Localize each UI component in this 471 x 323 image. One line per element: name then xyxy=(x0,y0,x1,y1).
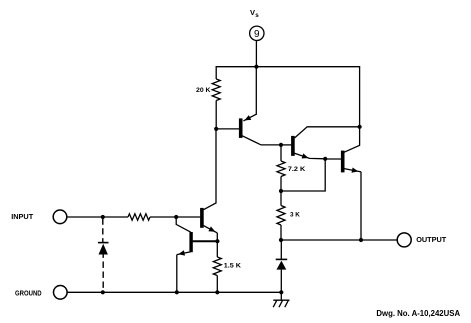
junction Q4 base / Q5 collector xyxy=(174,215,178,219)
wire to Q4 base xyxy=(150,216,200,218)
supply terminal (9 V) xyxy=(250,26,264,40)
terminal INPUT xyxy=(53,210,67,224)
resistor 7.2 K xyxy=(280,145,282,161)
svg-text:OUTPUT: OUTPUT xyxy=(416,235,446,244)
svg-text:7.2 K: 7.2 K xyxy=(288,166,306,173)
transistor Q4 (NPN) xyxy=(200,129,217,241)
junction Q2 collector node xyxy=(358,125,362,129)
wire top rail xyxy=(216,66,359,68)
ground (chassis) symbol xyxy=(273,292,289,307)
svg-text:3 K: 3 K xyxy=(290,212,300,219)
diode D2 xyxy=(276,240,288,292)
svg-text:9: 9 xyxy=(254,29,260,40)
junction ground/D2/chassis xyxy=(279,290,283,294)
resistor 3 K xyxy=(280,191,282,206)
wire ground rail xyxy=(67,291,281,293)
junction Q4 emitter / Q5 base / 1.5K xyxy=(215,239,219,243)
junction 20K / Q1 base / Q4 collector xyxy=(214,127,218,131)
svg-text:20 K: 20 K xyxy=(196,87,211,94)
svg-text:INPUT: INPUT xyxy=(11,212,33,221)
junction ground/Q5 emitter xyxy=(175,290,179,294)
wire rail to Q1 emitter xyxy=(255,67,257,115)
junction 3K / output / diode xyxy=(279,238,283,242)
wire input xyxy=(67,216,128,218)
resistor 20 K xyxy=(212,79,220,101)
transistor Q5 (NPN) xyxy=(176,217,217,292)
transistor Q2 (NPN) xyxy=(281,127,360,159)
transistor Q3 (NPN) xyxy=(325,127,361,173)
wire output xyxy=(281,239,397,241)
wire rail right drop xyxy=(359,66,361,127)
svg-text:1.5 K: 1.5 K xyxy=(224,263,241,270)
resistor 1.5 K xyxy=(216,241,218,257)
terminal OUTPUT xyxy=(397,233,411,247)
diode D1 (input clamp, dashed leads) xyxy=(98,219,109,293)
junction 7.2K / 3K / feedback xyxy=(279,189,283,193)
junction ground/1.5K xyxy=(215,290,219,294)
svg-text:GROUND: GROUND xyxy=(15,288,42,297)
junction output / Q3 emitter xyxy=(359,238,363,242)
junction Q1 collector / Q2 base / 7.2K xyxy=(279,143,283,147)
wire Q3 emitter to output node xyxy=(360,172,362,240)
wire supply to rail xyxy=(255,41,257,67)
transistor Q1 (PNP) xyxy=(216,114,281,145)
resistor R input (unlabeled) xyxy=(128,214,150,220)
junction ground/diode-lead xyxy=(101,290,105,294)
wire 20K to base node xyxy=(215,101,217,129)
wire rail to 20K xyxy=(215,66,217,79)
junction top rail / supply xyxy=(254,65,258,69)
junction Q2 emitter / Q3 base xyxy=(323,157,327,161)
svg-text:Dwg. No. A-10,242USA: Dwg. No. A-10,242USA xyxy=(376,309,460,318)
terminal GROUND xyxy=(54,286,68,300)
junction input / clamp diode xyxy=(101,215,105,219)
wire node to Q3 base branch xyxy=(281,159,325,191)
